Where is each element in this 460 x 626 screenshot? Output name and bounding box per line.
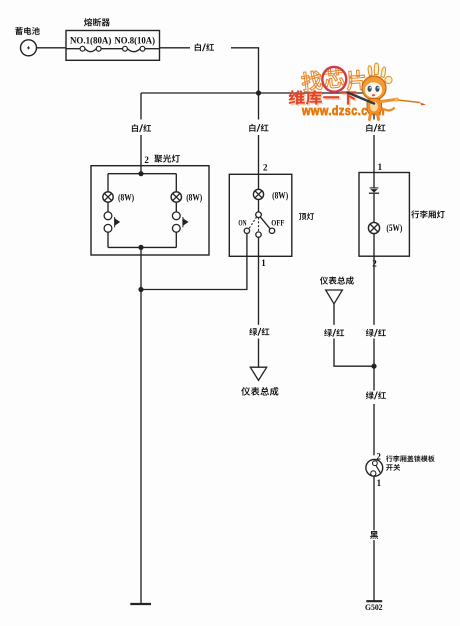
svg-text:2: 2 — [372, 258, 377, 268]
pin 2 label (trunk bottom) — [372, 258, 377, 268]
wire connector to bottom loop (right) — [175, 232, 177, 247]
lamp L3 (8W) dome — [253, 189, 263, 199]
wire label 白/红 top — [195, 43, 214, 51]
instrument cluster triangle (right) — [326, 290, 343, 304]
junction bus/middle branch — [256, 90, 261, 95]
wire into dome lamp — [258, 174, 260, 189]
fuse box 熔断器 — [66, 31, 160, 61]
wire label 绿/红 instrument branch — [324, 329, 344, 337]
wire to instrument triangle — [258, 339, 260, 368]
lamp L2 (8W) — [171, 192, 181, 202]
switch dashed center — [258, 218, 260, 232]
trunk box label 行李厢灯 — [411, 210, 445, 218]
pin 1 label (lid switch) — [377, 478, 382, 488]
pin 2 label (dome) — [263, 163, 268, 173]
fuse NO.8(10A) label — [115, 35, 156, 46]
wire label 白/红 right branch — [366, 124, 385, 132]
wire label 绿/红 dome out — [249, 328, 269, 336]
svg-text:OFF: OFF — [271, 219, 284, 228]
wire label 绿/红 right upper — [366, 329, 386, 337]
wire instrument to node B — [334, 304, 374, 366]
svg-text:2: 2 — [263, 163, 268, 173]
right branch wire down to trunk box — [373, 93, 375, 173]
watermark www.dzsc.com — [301, 104, 385, 118]
switch dashed throw to ON — [249, 217, 257, 229]
wire lamp L1 to connector — [107, 202, 109, 212]
junction node B — [371, 364, 376, 369]
connector pins left lamp — [104, 212, 120, 232]
middle branch wire down to dome box — [258, 93, 260, 174]
label 行李厢盖锁模板 — [386, 455, 435, 462]
wire node A to dome ON contact — [141, 234, 247, 290]
fuse F2 (10A) — [101, 46, 159, 51]
svg-text:NO.1(80A): NO.1(80A) — [70, 35, 111, 46]
label 仪表总成 (mid) — [241, 387, 278, 396]
watermark mascot — [348, 63, 427, 120]
wire to right lamp — [175, 174, 177, 192]
dome switch S1 common — [256, 212, 262, 218]
junction node A — [138, 287, 143, 292]
dome light box U2 顶灯 — [229, 174, 291, 256]
wire fuse box to top-right corner — [160, 48, 259, 93]
wire dome switch out pin1 — [258, 237, 260, 324]
svg-text:(8W): (8W) — [272, 191, 288, 201]
wire connector to bottom loop (left) — [107, 232, 109, 247]
junction inner bottom — [138, 245, 143, 250]
svg-text:1: 1 — [377, 478, 382, 488]
wire lamp L2 to connector — [175, 202, 177, 212]
ground bar G502 — [366, 600, 382, 602]
horizontal bus wire y=93 — [141, 92, 374, 94]
svg-text:(8W): (8W) — [118, 192, 134, 202]
wire label 绿/红 right lower — [366, 391, 386, 399]
switch lever to OFF — [260, 217, 270, 229]
label 仪表总成 (right) — [320, 276, 354, 284]
battery B1 — [21, 40, 37, 56]
trunk light box U3 行李厢灯 — [359, 173, 409, 257]
wire dome lamp to switch common — [258, 200, 260, 212]
fuse F1 (80A) — [66, 46, 101, 51]
svg-text:G502: G502 — [365, 603, 383, 612]
pin 1 label (dome) — [261, 258, 266, 268]
wire trunk lamp to box bottom — [373, 234, 375, 257]
svg-text:NO.8(10A): NO.8(10A) — [115, 35, 156, 46]
watermark red ring around 芯 — [321, 66, 347, 93]
watermark 维库一下 — [290, 92, 357, 106]
switch OFF contact — [269, 228, 274, 233]
label (8W) dome — [272, 191, 288, 201]
label OFF — [271, 219, 284, 228]
pin 2 label (lid switch) — [376, 451, 381, 461]
lamp L1 (8W) — [103, 192, 113, 202]
wire into trunk contact — [373, 173, 375, 188]
wire to left lamp — [107, 174, 109, 192]
wire spotlight out, down to ground (node A) — [140, 247, 142, 604]
svg-text:(5W): (5W) — [386, 223, 402, 233]
dome box label 顶灯 — [299, 213, 314, 220]
pin 1 label (trunk) — [378, 162, 383, 172]
wire label 白/红 middle branch — [249, 124, 268, 132]
wire battery to fuse box — [37, 47, 67, 49]
label ON — [238, 219, 246, 228]
battery label 蓄电池 — [15, 27, 39, 35]
trunk lid switch S2 — [366, 459, 383, 476]
switch ON contact — [244, 228, 249, 233]
fuse box label 熔断器 — [84, 18, 110, 26]
left branch wire down to spotlight box — [140, 93, 142, 166]
fuse NO.1(80A) label — [70, 35, 111, 46]
svg-text:2: 2 — [144, 155, 149, 165]
watermark 找芯片 outlined text — [301, 68, 366, 92]
pin 2 label (spotlight) — [144, 155, 149, 165]
wire into spotlight inner loop — [140, 166, 142, 174]
ground bar left — [130, 603, 151, 605]
trunk lamp contact symbol — [369, 188, 379, 193]
label (8W) right — [186, 192, 202, 202]
wire label 黑 — [370, 531, 378, 539]
spotlight box label 聚光灯 — [154, 154, 180, 162]
label (8W) left — [118, 192, 134, 202]
ground label G502 — [365, 603, 383, 612]
spotlight inner bottom wire — [108, 246, 176, 248]
switch center contact — [256, 232, 261, 237]
svg-text:(8W): (8W) — [186, 192, 202, 202]
wire contact to trunk lamp — [373, 194, 375, 223]
instrument cluster triangle (mid) — [250, 367, 266, 380]
label 开关 — [386, 464, 400, 471]
spotlight inner top wire — [108, 173, 176, 175]
wire lid switch to ground — [373, 476, 375, 601]
lamp L4 (5W) trunk — [368, 222, 379, 233]
label (5W) — [386, 223, 402, 233]
svg-text:1: 1 — [261, 258, 266, 268]
junction inner top — [138, 171, 143, 176]
wire trunk out down — [373, 256, 375, 455]
svg-text:ON: ON — [238, 219, 246, 228]
wire label 白/红 left branch — [132, 124, 151, 132]
svg-text:1: 1 — [378, 162, 383, 172]
connector pins right lamp — [172, 212, 188, 232]
spotlight box U1 聚光灯 — [91, 166, 209, 255]
